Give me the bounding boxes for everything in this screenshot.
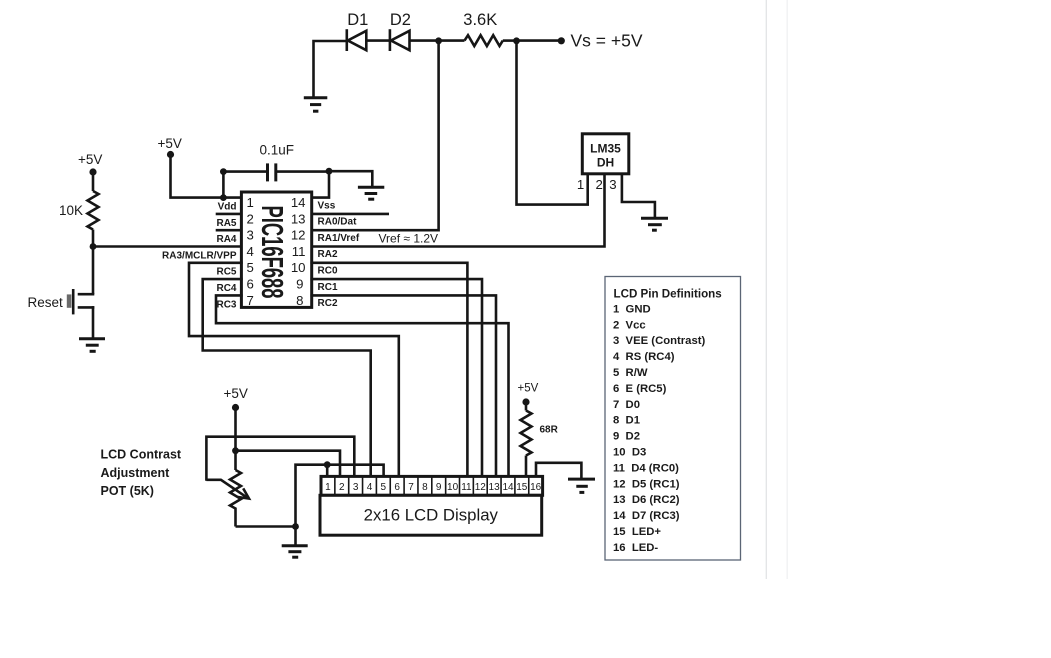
- U1 pin label RA0/Dat: [318, 217, 358, 228]
- svg-text:14: 14: [291, 195, 306, 210]
- wire RC5 pin5 to LCD pin 6: [189, 263, 399, 477]
- svg-text:DH: DH: [597, 156, 614, 170]
- svg-text:0.1uF: 0.1uF: [260, 143, 295, 158]
- node Vdd junction: [220, 194, 227, 201]
- svg-text:5: 5: [381, 482, 387, 493]
- wire ground node up and to LCD pin1 / pin5: [296, 465, 384, 527]
- wire resistor to node B: [503, 39, 517, 42]
- svg-text:3: 3: [353, 482, 359, 493]
- wire RC0 pin10 to LCD pin 11: [312, 263, 468, 477]
- ground (LM35): [641, 218, 668, 230]
- svg-text:14: 14: [502, 482, 514, 493]
- svg-text:12: 12: [291, 228, 306, 243]
- ground (diode chain): [304, 98, 328, 111]
- svg-text:13 D6 (RC2): 13 D6 (RC2): [613, 494, 680, 506]
- svg-text:PIC16F688: PIC16F688: [255, 205, 289, 298]
- LM35 pin number 3: [609, 177, 616, 192]
- svg-text:LM35: LM35: [590, 142, 621, 156]
- svg-text:7: 7: [408, 482, 414, 493]
- U1 pin number 6: [247, 277, 254, 292]
- label D1: [347, 11, 368, 29]
- wire node B down to LM35 pin 1: [517, 42, 588, 205]
- svg-text:10 D3: 10 D3: [613, 447, 646, 459]
- svg-text:+5V: +5V: [518, 383, 539, 395]
- svg-text:8: 8: [296, 293, 303, 308]
- resistor R1 10K: [88, 191, 99, 230]
- svg-text:1: 1: [577, 177, 584, 192]
- U1 pin label Vdd: [218, 202, 237, 213]
- svg-text:14 D7 (RC3): 14 D7 (RC3): [613, 510, 680, 522]
- U1 pin number 14: [291, 195, 306, 210]
- U1 pin number 9: [296, 277, 303, 292]
- wire cap node to ground: [329, 171, 372, 186]
- wire D2 to node A: [410, 39, 439, 42]
- wire RA4 stub: [216, 229, 242, 232]
- U1 pin number 13: [291, 211, 306, 226]
- svg-text:1 GND: 1 GND: [613, 303, 651, 315]
- node LCD pin1 junction: [324, 461, 331, 468]
- svg-text:68R: 68R: [540, 425, 559, 436]
- svg-text:16 LED-: 16 LED-: [613, 542, 658, 554]
- wire LM35 pin2 to RA2 pin11: [312, 175, 605, 247]
- svg-text:15: 15: [516, 482, 528, 493]
- wire D1 to D2: [366, 39, 390, 42]
- U1 pin number 2: [247, 211, 254, 226]
- U1 pin label RC4: [216, 283, 236, 294]
- svg-text:6 E (RC5): 6 E (RC5): [613, 383, 667, 395]
- pushbutton SW1 Reset: [67, 289, 93, 314]
- svg-text:3 VEE (Contrast): 3 VEE (Contrast): [613, 335, 706, 347]
- node pot top junction: [232, 447, 239, 454]
- wire RC2 pin8 to LCD pin 13: [312, 295, 496, 477]
- svg-text:7 D0: 7 D0: [613, 399, 640, 411]
- wire LCD pin 16 to ground: [536, 463, 581, 478]
- LCD connector header pins 1-16: [321, 476, 543, 495]
- wire RA0/Dat stub: [312, 213, 389, 216]
- LM35 pin number 1: [577, 177, 584, 192]
- svg-text:8: 8: [422, 482, 428, 493]
- LCD module body: [320, 495, 542, 535]
- U1 pin label RA1/Vref: [318, 233, 360, 244]
- node MCLR junction: [90, 243, 97, 250]
- svg-text:RA0/Dat: RA0/Dat: [318, 217, 358, 228]
- svg-text:D1: D1: [347, 11, 368, 29]
- supply +5V (contrast pot): [224, 386, 248, 411]
- svg-text:RA5: RA5: [216, 218, 236, 229]
- U1 pin number 8: [296, 293, 303, 308]
- label Vs = +5V: [571, 31, 643, 51]
- svg-text:1: 1: [247, 195, 254, 210]
- svg-text:13: 13: [291, 211, 306, 226]
- wire +5V to resistor 10K: [92, 172, 95, 191]
- svg-text:13: 13: [489, 482, 501, 493]
- node A junction: [435, 37, 442, 44]
- svg-text:RC2: RC2: [318, 298, 338, 309]
- wire RC4 pin6 to LCD pin 4: [203, 279, 371, 477]
- U1 pin label RA5: [216, 218, 236, 229]
- U1 pin label RC3: [216, 299, 236, 310]
- label 3.6K: [463, 11, 497, 29]
- svg-text:11: 11: [461, 482, 472, 493]
- wire +5V to resistor 68R: [525, 403, 528, 411]
- svg-text:RC1: RC1: [318, 282, 338, 293]
- U1 pin label RA3/MCLR/VPP: [162, 250, 237, 261]
- wire pot ground node down to ground: [294, 527, 297, 545]
- wire cap left lead: [223, 170, 267, 173]
- svg-text:RA4: RA4: [216, 234, 236, 245]
- label 0.1uF: [260, 143, 295, 158]
- wire RC3 pin7 to LCD pin 14: [216, 295, 509, 477]
- svg-text:1: 1: [325, 482, 331, 493]
- svg-text:RC4: RC4: [216, 283, 236, 294]
- svg-text:Vdd: Vdd: [218, 202, 237, 213]
- supply +5V (Vdd rail): [158, 136, 182, 158]
- IC U1 PIC16F688: [241, 192, 311, 307]
- svg-text:3: 3: [247, 228, 254, 243]
- svg-text:11: 11: [292, 244, 306, 259]
- svg-text:3: 3: [609, 177, 616, 192]
- svg-text:2: 2: [247, 211, 254, 226]
- svg-text:4: 4: [367, 482, 373, 493]
- sensor U2 LM35DH: [582, 134, 629, 174]
- wire cap node down to Vss pin14: [312, 172, 329, 198]
- svg-text:RC3: RC3: [216, 299, 236, 310]
- wire pot bottom to ground node: [236, 525, 296, 528]
- U1 pin number 5: [247, 260, 254, 275]
- node cap right junction: [326, 168, 333, 175]
- svg-text:11 D4 (RC0): 11 D4 (RC0): [613, 462, 679, 474]
- U1 pin number 1: [247, 195, 254, 210]
- svg-text:RC0: RC0: [318, 266, 338, 277]
- svg-text:+5V: +5V: [224, 386, 248, 401]
- svg-text:9 D2: 9 D2: [613, 431, 640, 443]
- svg-text:Adjustment: Adjustment: [101, 466, 171, 480]
- svg-text:RA3/MCLR/VPP: RA3/MCLR/VPP: [162, 250, 237, 261]
- wire pot top node to LCD pin 2: [236, 451, 341, 477]
- svg-text:12 D5 (RC1): 12 D5 (RC1): [613, 478, 680, 490]
- label D2: [390, 11, 411, 29]
- wire switch to ground: [92, 307, 95, 337]
- svg-text:9: 9: [436, 482, 442, 493]
- svg-text:POT (5K): POT (5K): [101, 484, 154, 498]
- svg-text:+5V: +5V: [158, 136, 182, 151]
- label Reset: [28, 295, 64, 310]
- diode D1: [347, 29, 367, 51]
- diode D2: [390, 29, 410, 51]
- wire LM35 pin3 to ground: [622, 175, 655, 217]
- svg-text:4 RS (RC4): 4 RS (RC4): [613, 351, 675, 363]
- potentiometer VR1 5K body: [230, 470, 241, 527]
- U1 pin number 11: [292, 244, 306, 259]
- wire node A down to pin12 RA1/Vref: [312, 42, 439, 230]
- svg-text:6: 6: [394, 482, 400, 493]
- svg-text:Vref ≈ 1.2V: Vref ≈ 1.2V: [379, 232, 439, 246]
- svg-text:RC5: RC5: [216, 267, 236, 278]
- svg-text:4: 4: [247, 244, 254, 259]
- node cap left junction: [220, 168, 227, 175]
- ground (bypass cap): [358, 187, 384, 199]
- svg-text:3.6K: 3.6K: [463, 11, 497, 29]
- svg-text:10: 10: [291, 260, 306, 275]
- wire +5V down to pot top: [234, 408, 237, 470]
- node pot ground junction: [292, 523, 299, 530]
- wire +5V down and right to Vdd pin: [171, 155, 242, 198]
- label 10K: [59, 203, 83, 218]
- ground (LCD backlight): [568, 479, 595, 492]
- LM35 pin number 2: [595, 177, 602, 192]
- wire 68R to LCD pin 15: [525, 456, 528, 478]
- wire RC1 pin9 to LCD pin 12: [312, 279, 482, 477]
- U1 pin number 3: [247, 228, 254, 243]
- page edge: [766, 0, 787, 579]
- svg-text:LCD Pin Definitions: LCD Pin Definitions: [614, 288, 722, 301]
- wire node A to resistor: [439, 39, 465, 42]
- wire cap right lead to node: [276, 170, 329, 173]
- U1 pin number 4: [247, 244, 254, 259]
- potentiometer wiper arrow from LCD pin 3: [206, 437, 354, 499]
- svg-text:16: 16: [530, 482, 542, 493]
- U1 pin label RC0: [318, 266, 338, 277]
- U1 pin number 7: [247, 293, 254, 308]
- node B junction: [513, 37, 520, 44]
- wire junction down to LCD pin 1: [326, 465, 329, 477]
- svg-text:2 Vcc: 2 Vcc: [613, 319, 646, 331]
- svg-text:2: 2: [339, 482, 345, 493]
- svg-text:5: 5: [247, 260, 254, 275]
- svg-text:+5V: +5V: [78, 152, 102, 167]
- svg-text:RA1/Vref: RA1/Vref: [318, 233, 360, 244]
- label LCD Contrast Adjustment POT (5K): [101, 447, 182, 498]
- supply +5V (backlight): [518, 383, 539, 406]
- svg-text:Vss: Vss: [318, 200, 336, 211]
- capacitor C1 0.1uF: [268, 163, 276, 181]
- supply +5V (MCLR pull-up): [78, 152, 102, 176]
- U1 pin number 12: [291, 228, 306, 243]
- svg-text:D2: D2: [390, 11, 411, 29]
- label 68R: [540, 425, 559, 436]
- U1 pin label Vss: [318, 200, 336, 211]
- svg-text:RA2: RA2: [318, 249, 338, 260]
- wire MCLR node to RA3 pin4: [93, 245, 241, 248]
- resistor 3.6K: [465, 35, 503, 46]
- LCD pin definitions panel: [605, 277, 741, 561]
- svg-text:15 LED+: 15 LED+: [613, 526, 661, 538]
- LCD pin cell numbers: [325, 482, 542, 493]
- wire node B to Vs terminal: [517, 39, 561, 42]
- label Vref = 1.2V: [379, 232, 439, 246]
- svg-text:10K: 10K: [59, 203, 83, 218]
- ground (pot): [282, 546, 308, 557]
- ground (reset): [79, 339, 105, 352]
- wire top rail left segment: [314, 41, 346, 97]
- svg-text:Reset: Reset: [28, 295, 64, 310]
- svg-text:5 R/W: 5 R/W: [613, 367, 648, 379]
- U1 pin label RA2: [318, 249, 338, 260]
- wire resistor to MCLR node: [92, 230, 95, 247]
- svg-text:7: 7: [247, 293, 254, 308]
- U1 pin label RA4: [216, 234, 236, 245]
- U1 pin number 10: [291, 260, 306, 275]
- svg-text:LCD Contrast: LCD Contrast: [101, 447, 182, 461]
- wire RA5 stub: [216, 213, 242, 216]
- svg-text:8 D1: 8 D1: [613, 415, 640, 427]
- U1 pin label RC2: [318, 298, 338, 309]
- resistor R3 68R: [521, 411, 532, 456]
- svg-text:2x16 LCD Display: 2x16 LCD Display: [364, 505, 499, 524]
- svg-text:6: 6: [247, 277, 254, 292]
- wire MCLR node down to switch: [92, 247, 95, 295]
- svg-text:9: 9: [296, 277, 303, 292]
- svg-text:2: 2: [595, 177, 602, 192]
- terminal Vs: [558, 37, 565, 44]
- svg-text:12: 12: [475, 482, 487, 493]
- svg-text:10: 10: [447, 482, 459, 493]
- wire Vdd node up to cap node: [222, 172, 225, 198]
- U1 pin label RC5: [216, 267, 236, 278]
- U1 pin label RC1: [318, 282, 338, 293]
- svg-text:Vs = +5V: Vs = +5V: [571, 31, 643, 51]
